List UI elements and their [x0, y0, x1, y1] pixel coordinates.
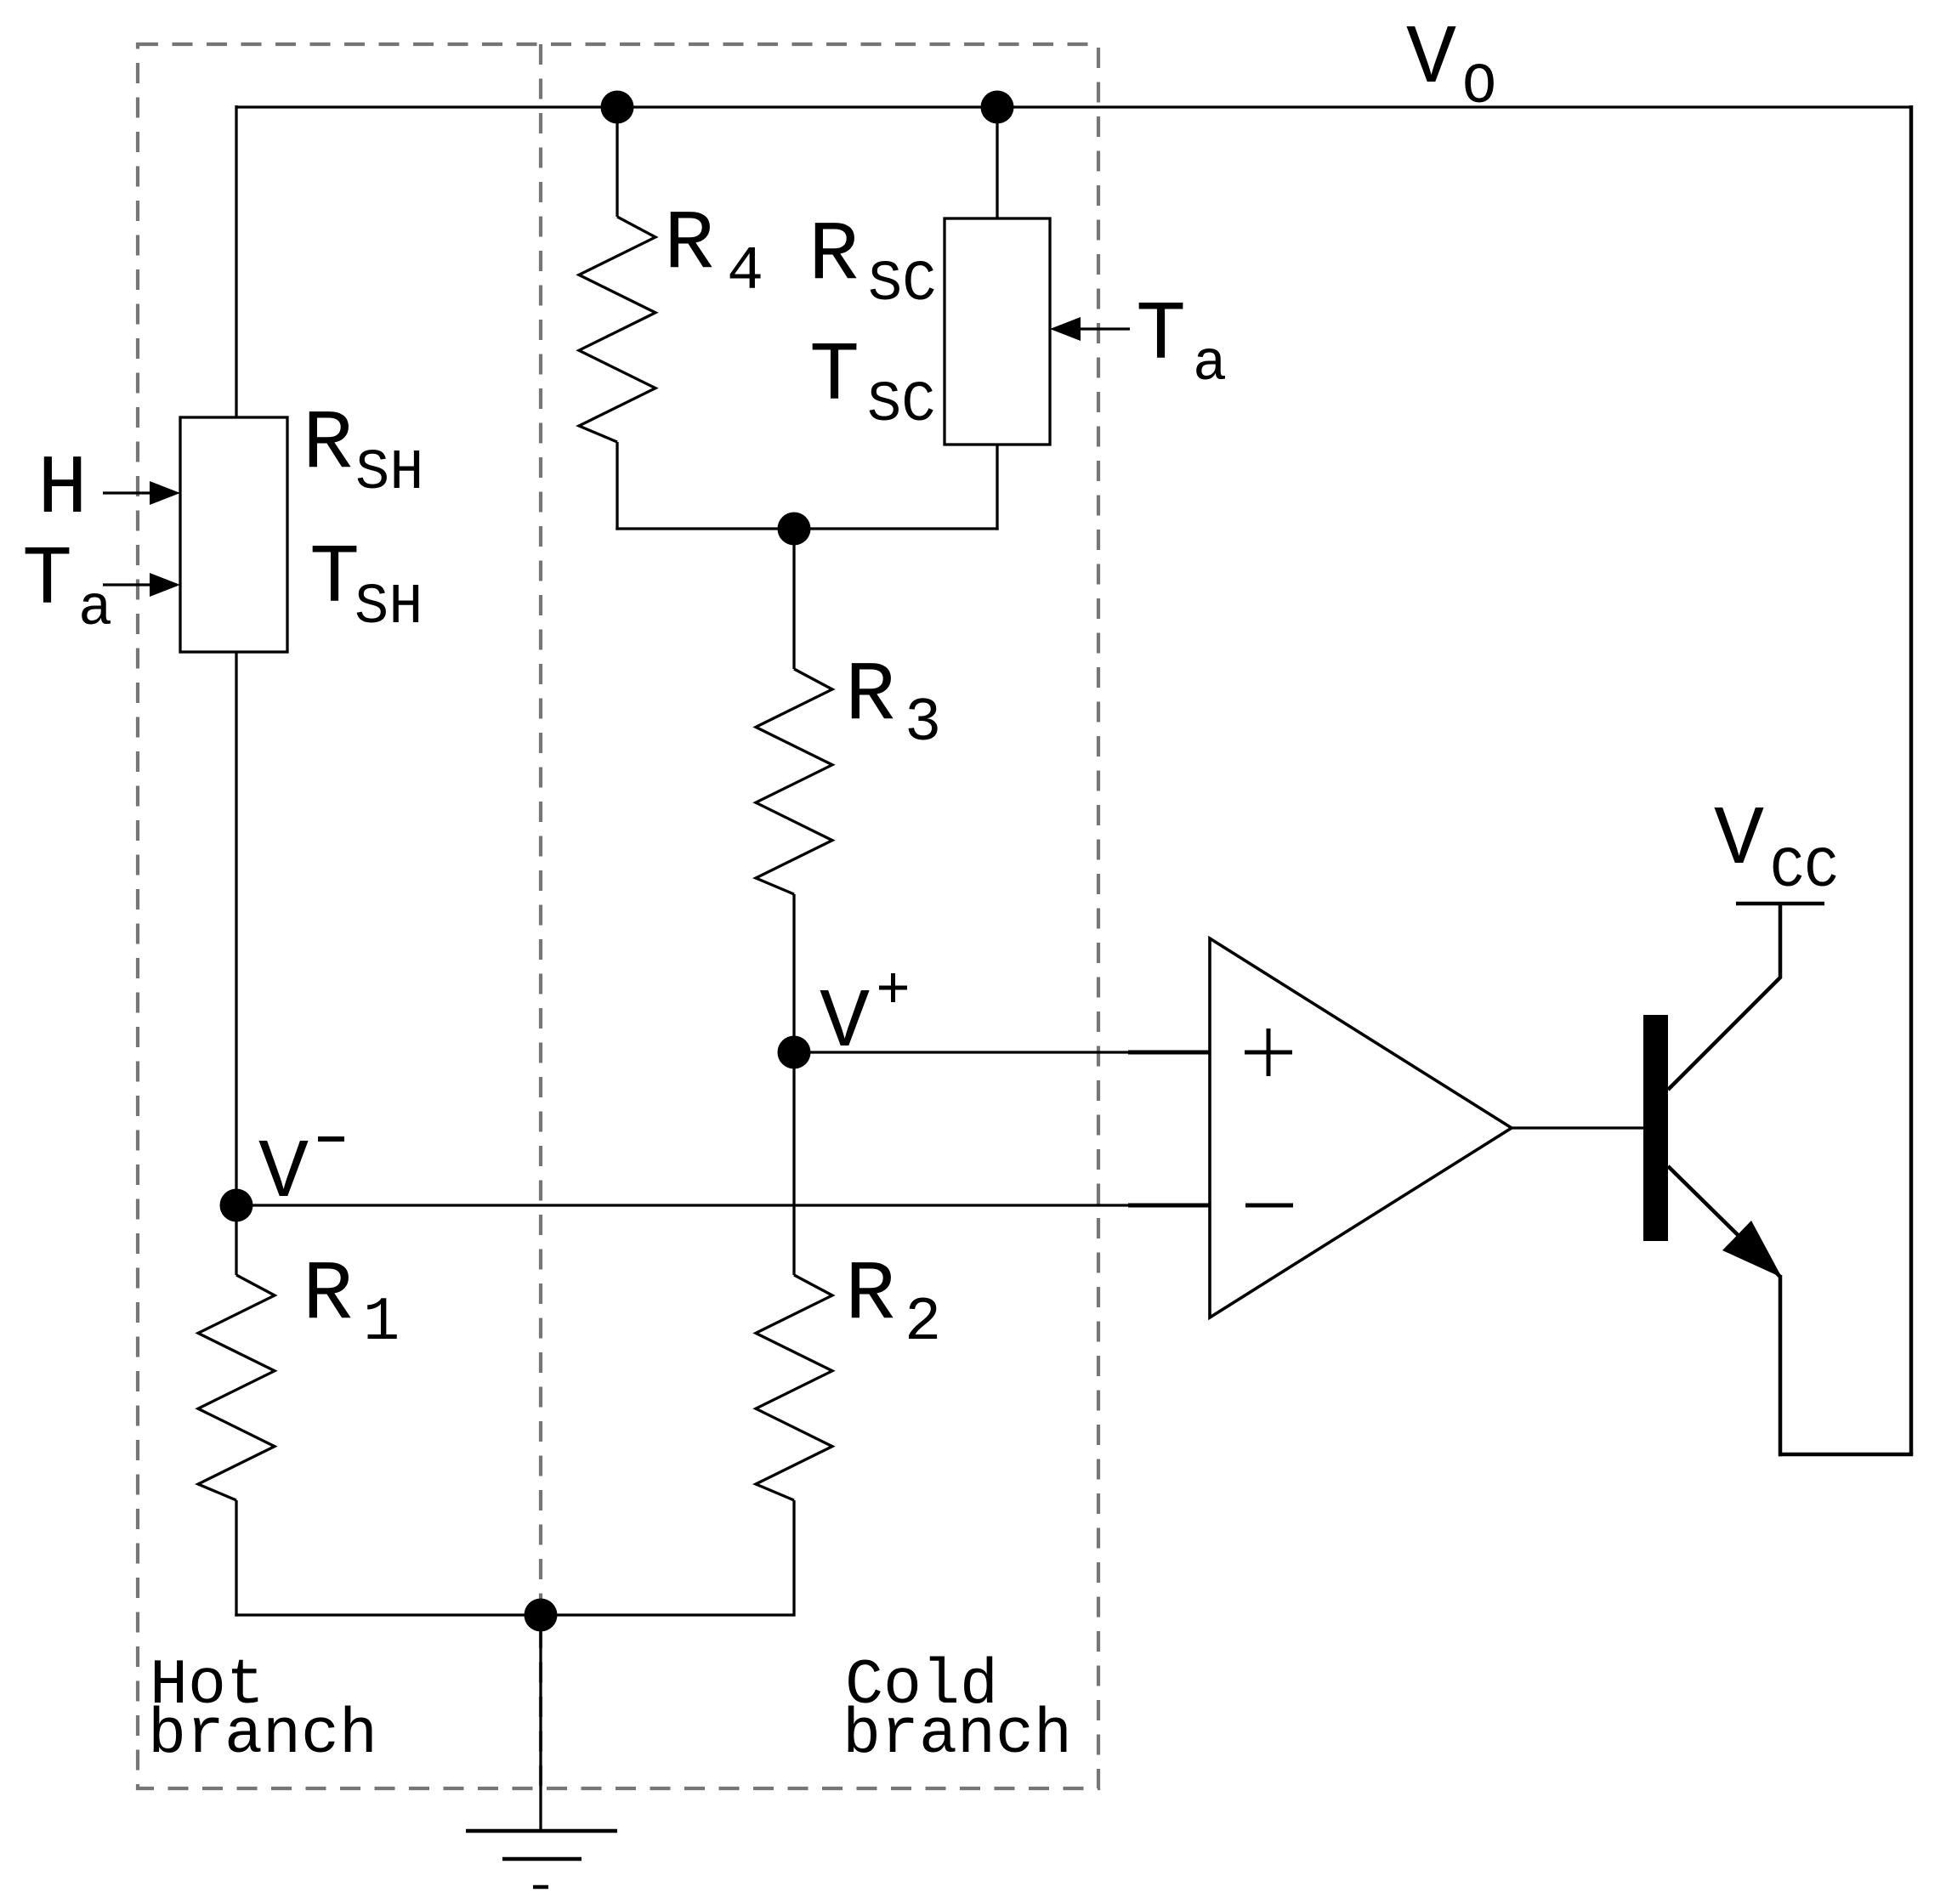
label V+ [820, 973, 907, 1071]
dashed enclosure box (Hot/Cold branch) [138, 44, 1098, 1788]
input arrow Ta into RSH [103, 583, 157, 586]
wire emitter down [1779, 1275, 1783, 1456]
svg-text:V: V [820, 976, 870, 1071]
transistor Q1 emitter arrowhead [1722, 1221, 1782, 1278]
wire parallel-combination bottom link [616, 527, 998, 530]
svg-text:SC: SC [867, 373, 935, 438]
label R2 [845, 1248, 941, 1357]
resistor R2 [756, 1275, 832, 1500]
input arrow Ta into RSC [1076, 327, 1130, 330]
svg-text:1: 1 [363, 1288, 400, 1357]
wire V- to op-amp [236, 1204, 1210, 1206]
svg-text:2: 2 [905, 1288, 941, 1357]
transistor Q1 collector lead [1668, 904, 1780, 1090]
wire R3 bottom to V+ node [792, 894, 795, 1052]
svg-text:branch: branch [843, 1699, 1072, 1771]
op-amp minus input marking [1245, 1204, 1293, 1208]
junction node top of RSC [981, 91, 1014, 124]
svg-text:a: a [78, 577, 112, 642]
label TSC [809, 329, 935, 438]
svg-text:T: T [22, 533, 72, 628]
wire ground stem [539, 1615, 542, 1831]
wire op-amp output to base [1512, 1126, 1643, 1129]
svg-text:4: 4 [727, 237, 763, 307]
svg-text:SH: SH [355, 575, 423, 640]
wire VO top rail [236, 105, 1911, 108]
wire VO right feedback [1909, 105, 1914, 1454]
node V- [220, 1189, 253, 1222]
svg-text:R: R [664, 197, 714, 292]
wire R1 bottom [235, 1500, 237, 1617]
label V- [258, 1126, 344, 1221]
op-amp minus input stub [1128, 1204, 1210, 1208]
wire RSC top stub [996, 107, 998, 218]
wire R2 bottom [792, 1500, 795, 1617]
svg-text:V: V [1714, 793, 1764, 888]
label R3 [845, 649, 941, 758]
svg-text:V: V [258, 1126, 309, 1221]
label R1 [303, 1248, 400, 1357]
wire V+ node down through crossing to R2 [792, 1052, 795, 1275]
label TSH [309, 531, 423, 640]
svg-text:V: V [1406, 12, 1456, 107]
svg-text:a: a [1193, 332, 1227, 397]
label R4 [664, 197, 763, 307]
arrowhead Ta right [1050, 317, 1081, 341]
arrowhead H [150, 481, 180, 505]
resistor R3 [756, 669, 832, 894]
svg-text:T: T [309, 531, 360, 626]
resistor R4 [579, 217, 655, 442]
resistor R1 [198, 1275, 275, 1500]
junction node R4/RSC bottom [778, 513, 811, 546]
svg-text:T: T [1136, 288, 1186, 383]
svg-text:O: O [1462, 55, 1496, 120]
junction node ground rail [525, 1599, 558, 1632]
label Ta left [22, 533, 112, 642]
arrowhead Ta left [150, 573, 180, 597]
dashed divider between hot and cold branch [539, 44, 542, 1788]
label Hot branch [148, 1650, 377, 1771]
op-amp plus input marking [1245, 1028, 1292, 1076]
svg-text:SH: SH [355, 441, 423, 506]
svg-text:T: T [809, 329, 860, 424]
svg-text:CC: CC [1770, 839, 1838, 904]
label RSH [303, 397, 423, 506]
op-amp U1 triangle [1210, 938, 1512, 1317]
wire RSH bottom to V- node [235, 652, 237, 1275]
wire bottom rail [235, 1613, 794, 1616]
wire emitter to output feedback [1779, 1453, 1913, 1457]
svg-text:branch: branch [148, 1699, 377, 1771]
junction node top of R4 [601, 91, 634, 124]
wire R4 bottom stub [616, 442, 618, 530]
svg-text:R: R [808, 208, 859, 303]
svg-text:R: R [845, 1248, 895, 1343]
sensor RSH body [180, 417, 287, 652]
wire R4 top stub [616, 107, 618, 217]
label VCC [1714, 793, 1838, 904]
op-amp plus input stub [1128, 1051, 1210, 1055]
ground symbol [466, 1831, 617, 1887]
label Cold branch [843, 1650, 1072, 1771]
wire left branch top [235, 105, 237, 417]
svg-text:R: R [303, 1248, 353, 1343]
VCC supply bar [1736, 902, 1824, 906]
node V+ [778, 1036, 811, 1069]
svg-text:R: R [845, 649, 895, 744]
svg-text:R: R [303, 397, 353, 492]
label H [37, 442, 88, 537]
svg-text:H: H [37, 442, 88, 537]
label Ta right [1136, 288, 1227, 397]
label VO [1406, 12, 1496, 120]
svg-text:SC: SC [868, 252, 936, 317]
input arrow H [103, 491, 157, 494]
wire junction to R3 [792, 529, 795, 669]
transistor Q1 base bar [1643, 1015, 1668, 1241]
wire RSC bottom stub [996, 445, 998, 530]
svg-text:3: 3 [905, 688, 941, 758]
wire V+ to op-amp [794, 1051, 1210, 1053]
transistor Q1 emitter lead [1668, 1166, 1780, 1277]
sensor RSC body [945, 218, 1050, 445]
label RSC [808, 208, 936, 317]
